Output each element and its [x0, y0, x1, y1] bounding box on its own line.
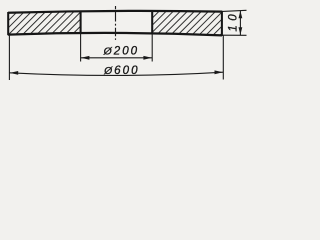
extension line hole-left [80, 33, 82, 61]
hole left wall [80, 11, 82, 33]
section hatch right [153, 11, 222, 35]
arrowhead d600 right [215, 70, 224, 74]
extension line outer-right [222, 36, 224, 80]
arrowhead d200 left [81, 56, 90, 60]
svg-text:Ø600: Ø600 [103, 64, 139, 77]
plate right edge [221, 11, 223, 36]
dimension line d200 [81, 57, 153, 59]
hole right wall [151, 11, 153, 34]
extension line outer-left [8, 35, 10, 80]
paper background [0, 0, 255, 90]
svg-text:Ø200: Ø200 [103, 44, 139, 57]
plate bottom edge [8, 33, 222, 35]
extension line thickness-bottom [223, 34, 247, 36]
arrowhead d600 left [10, 71, 19, 75]
dimension line d600 [9, 72, 223, 75]
plate top edge [8, 11, 222, 13]
arrowhead 10 top [239, 11, 243, 19]
section hatch left [9, 11, 80, 34]
centerline [115, 6, 117, 40]
svg-text:10: 10 [228, 10, 240, 32]
extension line hole-right [151, 33, 153, 61]
extension line thickness-top [223, 10, 247, 11]
arrowhead d200 right [143, 56, 152, 60]
dimension line thickness 10 [239, 10, 241, 35]
plate left edge [7, 12, 9, 35]
arrowhead 10 bottom [239, 27, 243, 35]
